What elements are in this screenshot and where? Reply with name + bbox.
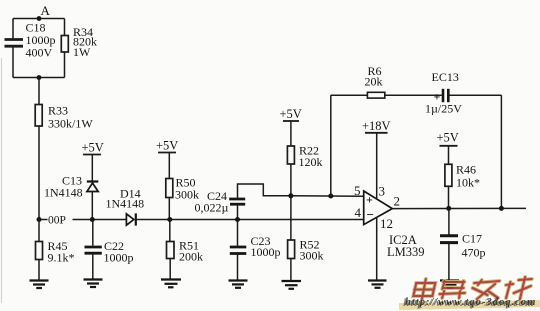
svg-text:330k/1W: 330k/1W [48, 117, 93, 131]
svg-text:R33: R33 [48, 104, 68, 118]
capacitor C24 [195, 189, 246, 215]
resistor R52 [288, 238, 324, 281]
svg-text:1000p: 1000p [104, 251, 134, 265]
capacitor C23 [230, 220, 281, 281]
wire: top feedback horizontal [331, 94, 502, 96]
svg-text:12: 12 [380, 216, 393, 231]
svg-text:470p: 470p [462, 246, 486, 260]
wire: C18/R34 loop box [13, 19, 65, 78]
svg-text:LM339: LM339 [387, 245, 425, 259]
wire: C24 bottom to main line [237, 204, 239, 219]
svg-text:1µ/25V: 1µ/25V [425, 102, 462, 116]
resistor R6 [365, 64, 385, 98]
capacitor EC13 (electrolytic) [425, 70, 462, 116]
ground: under C23 [229, 281, 248, 288]
svg-text:1N4148: 1N4148 [44, 186, 83, 200]
node: feedback junction on pin5 wire [328, 194, 333, 199]
svg-text:EC13: EC13 [432, 70, 459, 84]
svg-text:−: − [367, 207, 374, 222]
svg-text:4: 4 [355, 205, 362, 220]
+18V supply [362, 119, 391, 199]
capacitor C17 [440, 208, 486, 280]
svg-text:A: A [41, 3, 51, 18]
+5V supply (above R22) [280, 107, 302, 146]
svg-text:+5V: +5V [156, 139, 178, 153]
op-amp U1 IC2A LM339 [354, 183, 425, 259]
svg-text:1W: 1W [73, 45, 91, 59]
diode D14 [106, 187, 145, 226]
node: R46/C17 on output [446, 206, 451, 211]
svg-text:1N4148: 1N4148 [106, 197, 145, 211]
svg-text:20k: 20k [365, 75, 383, 89]
svg-text:5: 5 [354, 183, 361, 198]
svg-text:400V: 400V [26, 46, 53, 60]
node 00P [37, 215, 66, 227]
svg-text:+5V: +5V [437, 131, 459, 145]
scan border line [1, 58, 3, 303]
resistor R50 [166, 176, 199, 220]
node: R22 / pin5 wire [288, 193, 293, 198]
resistor R22 [287, 144, 322, 196]
+5V supply (above C13) [82, 141, 104, 182]
svg-text:300k: 300k [300, 249, 324, 263]
node: box bottom junction [37, 75, 42, 80]
svg-text:2: 2 [394, 194, 401, 209]
ground: under R51 [161, 280, 181, 288]
svg-text:0,022µ: 0,022µ [195, 201, 229, 215]
resistor R45 [36, 220, 75, 281]
ground: under R52 [282, 281, 302, 289]
resistor R34 [61, 25, 97, 59]
capacitor C18 [5, 21, 56, 60]
wire: C24 stepped wire to pin5 net [238, 184, 291, 199]
svg-text:+5V: +5V [82, 141, 104, 155]
wire: main line 00P to D14 [73, 219, 127, 221]
wire: R33 to node 00P [38, 126, 40, 220]
capacitor C22 [85, 220, 134, 280]
svg-text:9.1k*: 9.1k* [48, 251, 75, 265]
svg-text:200k: 200k [179, 250, 203, 264]
node: EC13 right on output [499, 206, 504, 211]
wire: box to R33 [38, 78, 40, 105]
wire: feedback left vertical (R6 net) [330, 95, 332, 196]
svg-text:1000p: 1000p [251, 245, 281, 259]
node: C24/C23 main line [235, 217, 240, 222]
wire: pin5 wire from node to op-amp [291, 195, 364, 198]
svg-text:120k: 120k [299, 155, 323, 169]
+5V supply (above R50) [156, 139, 178, 179]
+5V supply (above R46) [437, 131, 459, 165]
resistor R33 [35, 104, 93, 131]
watermark [399, 277, 540, 310]
wire: EC13 right vertical to output [500, 95, 502, 208]
svg-text:+: + [366, 193, 373, 207]
resistor R46 [445, 163, 480, 209]
svg-text:+5V: +5V [280, 107, 302, 121]
wire: D14 to pin4 of op-amp [136, 219, 364, 221]
wire: output line [392, 207, 526, 209]
svg-text:http://www.tqo-3doq.com: http://www.tqo-3doq.com [405, 296, 536, 308]
ground: op-amp pin 12 [368, 281, 387, 288]
node A [37, 3, 51, 21]
svg-text:C17: C17 [462, 232, 482, 246]
ground: under R45 [30, 281, 49, 289]
diode C13 [44, 174, 98, 220]
wire: pin 12 to ground [376, 217, 378, 280]
svg-text:3: 3 [379, 184, 386, 199]
svg-text:00P: 00P [48, 215, 66, 227]
node: R50/R51 main line [167, 217, 172, 222]
svg-text:R46: R46 [456, 163, 476, 177]
ground: under C17 [440, 281, 459, 289]
svg-text:10k*: 10k* [456, 176, 480, 190]
resistor R51 [167, 220, 204, 280]
node: C13 / main line [90, 217, 95, 222]
ground: under C22 [84, 280, 103, 288]
wire: R22 node down to R52 (crosses main line) [290, 196, 292, 240]
svg-text:300k: 300k [175, 188, 199, 202]
svg-text:+18V: +18V [362, 119, 391, 133]
